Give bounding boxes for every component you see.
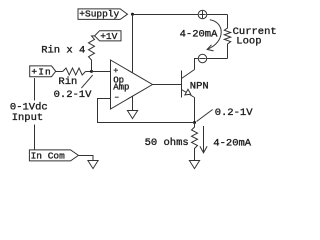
svg-text:Rin: Rin xyxy=(58,76,77,88)
wire node A to op-amp V+ xyxy=(132,15,134,73)
label Current Loop xyxy=(233,26,277,48)
wire loop bottom-right corner to - terminal xyxy=(207,58,228,60)
power flag +Supply xyxy=(78,8,128,19)
svg-text:50 ohms: 50 ohms xyxy=(145,137,189,149)
ground (input common) xyxy=(88,161,98,169)
wire + terminal to loop top-right corner xyxy=(207,14,228,16)
svg-text:+Supply: +Supply xyxy=(79,8,119,19)
svg-text:Rin x 4: Rin x 4 xyxy=(41,45,85,57)
terminal + (current loop source positive) xyxy=(198,10,207,19)
wire supply rail: node A to current loop + terminal xyxy=(133,14,199,16)
wire In Com to ground xyxy=(78,156,93,161)
wire - terminal to Q1 collector xyxy=(195,59,199,70)
ground (op-amp V-) xyxy=(127,111,137,119)
svg-text:+In: +In xyxy=(31,66,51,77)
wire op-amp output to Q1 base xyxy=(153,84,182,86)
label 0-1Vdc Input xyxy=(10,102,48,125)
ground (50 ohm return) xyxy=(189,161,199,169)
resistor RL (current loop load) xyxy=(224,15,230,59)
annotation line to node B xyxy=(81,75,92,88)
wire feedback: node C to inverting input xyxy=(98,99,195,123)
emitter current arrow xyxy=(200,126,207,153)
svg-text:Loop: Loop xyxy=(236,36,261,48)
node B (non-inverting input node) xyxy=(90,70,93,73)
svg-text:NPN: NPN xyxy=(190,81,209,93)
annotation line to emitter voltage label xyxy=(197,110,213,122)
input flag +In xyxy=(30,66,56,78)
svg-text:In Com: In Com xyxy=(31,151,66,162)
node A (supply junction) xyxy=(131,13,134,16)
svg-text:0.2-1V: 0.2-1V xyxy=(54,89,93,101)
resistor R1 (Rin) xyxy=(63,68,86,75)
wire Q1 emitter to node C xyxy=(194,98,196,123)
svg-text:+1V: +1V xyxy=(100,31,117,42)
power flag +1V xyxy=(95,31,121,42)
wire +In to input terminal annotation xyxy=(34,78,36,150)
wire op-amp V- to ground xyxy=(132,96,134,110)
svg-text:4-20mA: 4-20mA xyxy=(213,137,252,149)
svg-text:0.2-1V: 0.2-1V xyxy=(215,107,254,119)
wire node B to op-amp + input xyxy=(92,71,111,73)
transistor Q1 (NPN) xyxy=(182,70,195,98)
current direction arrow (loop) xyxy=(207,20,221,51)
svg-text:Input: Input xyxy=(12,112,44,124)
resistor R3 (50 ohms emitter resistor) xyxy=(192,123,198,161)
svg-text:Amp: Amp xyxy=(113,83,129,93)
input flag In Com xyxy=(29,150,78,162)
node C (emitter feedback node) xyxy=(193,121,196,124)
wire +In flag to Rin xyxy=(56,71,63,73)
wire Rin to node B xyxy=(86,71,92,73)
op-amp U1 xyxy=(111,60,153,109)
terminal - (current loop return) xyxy=(198,54,206,62)
svg-text:4-20mA: 4-20mA xyxy=(180,29,219,41)
resistor R2 (Rin x 4) xyxy=(89,36,95,72)
